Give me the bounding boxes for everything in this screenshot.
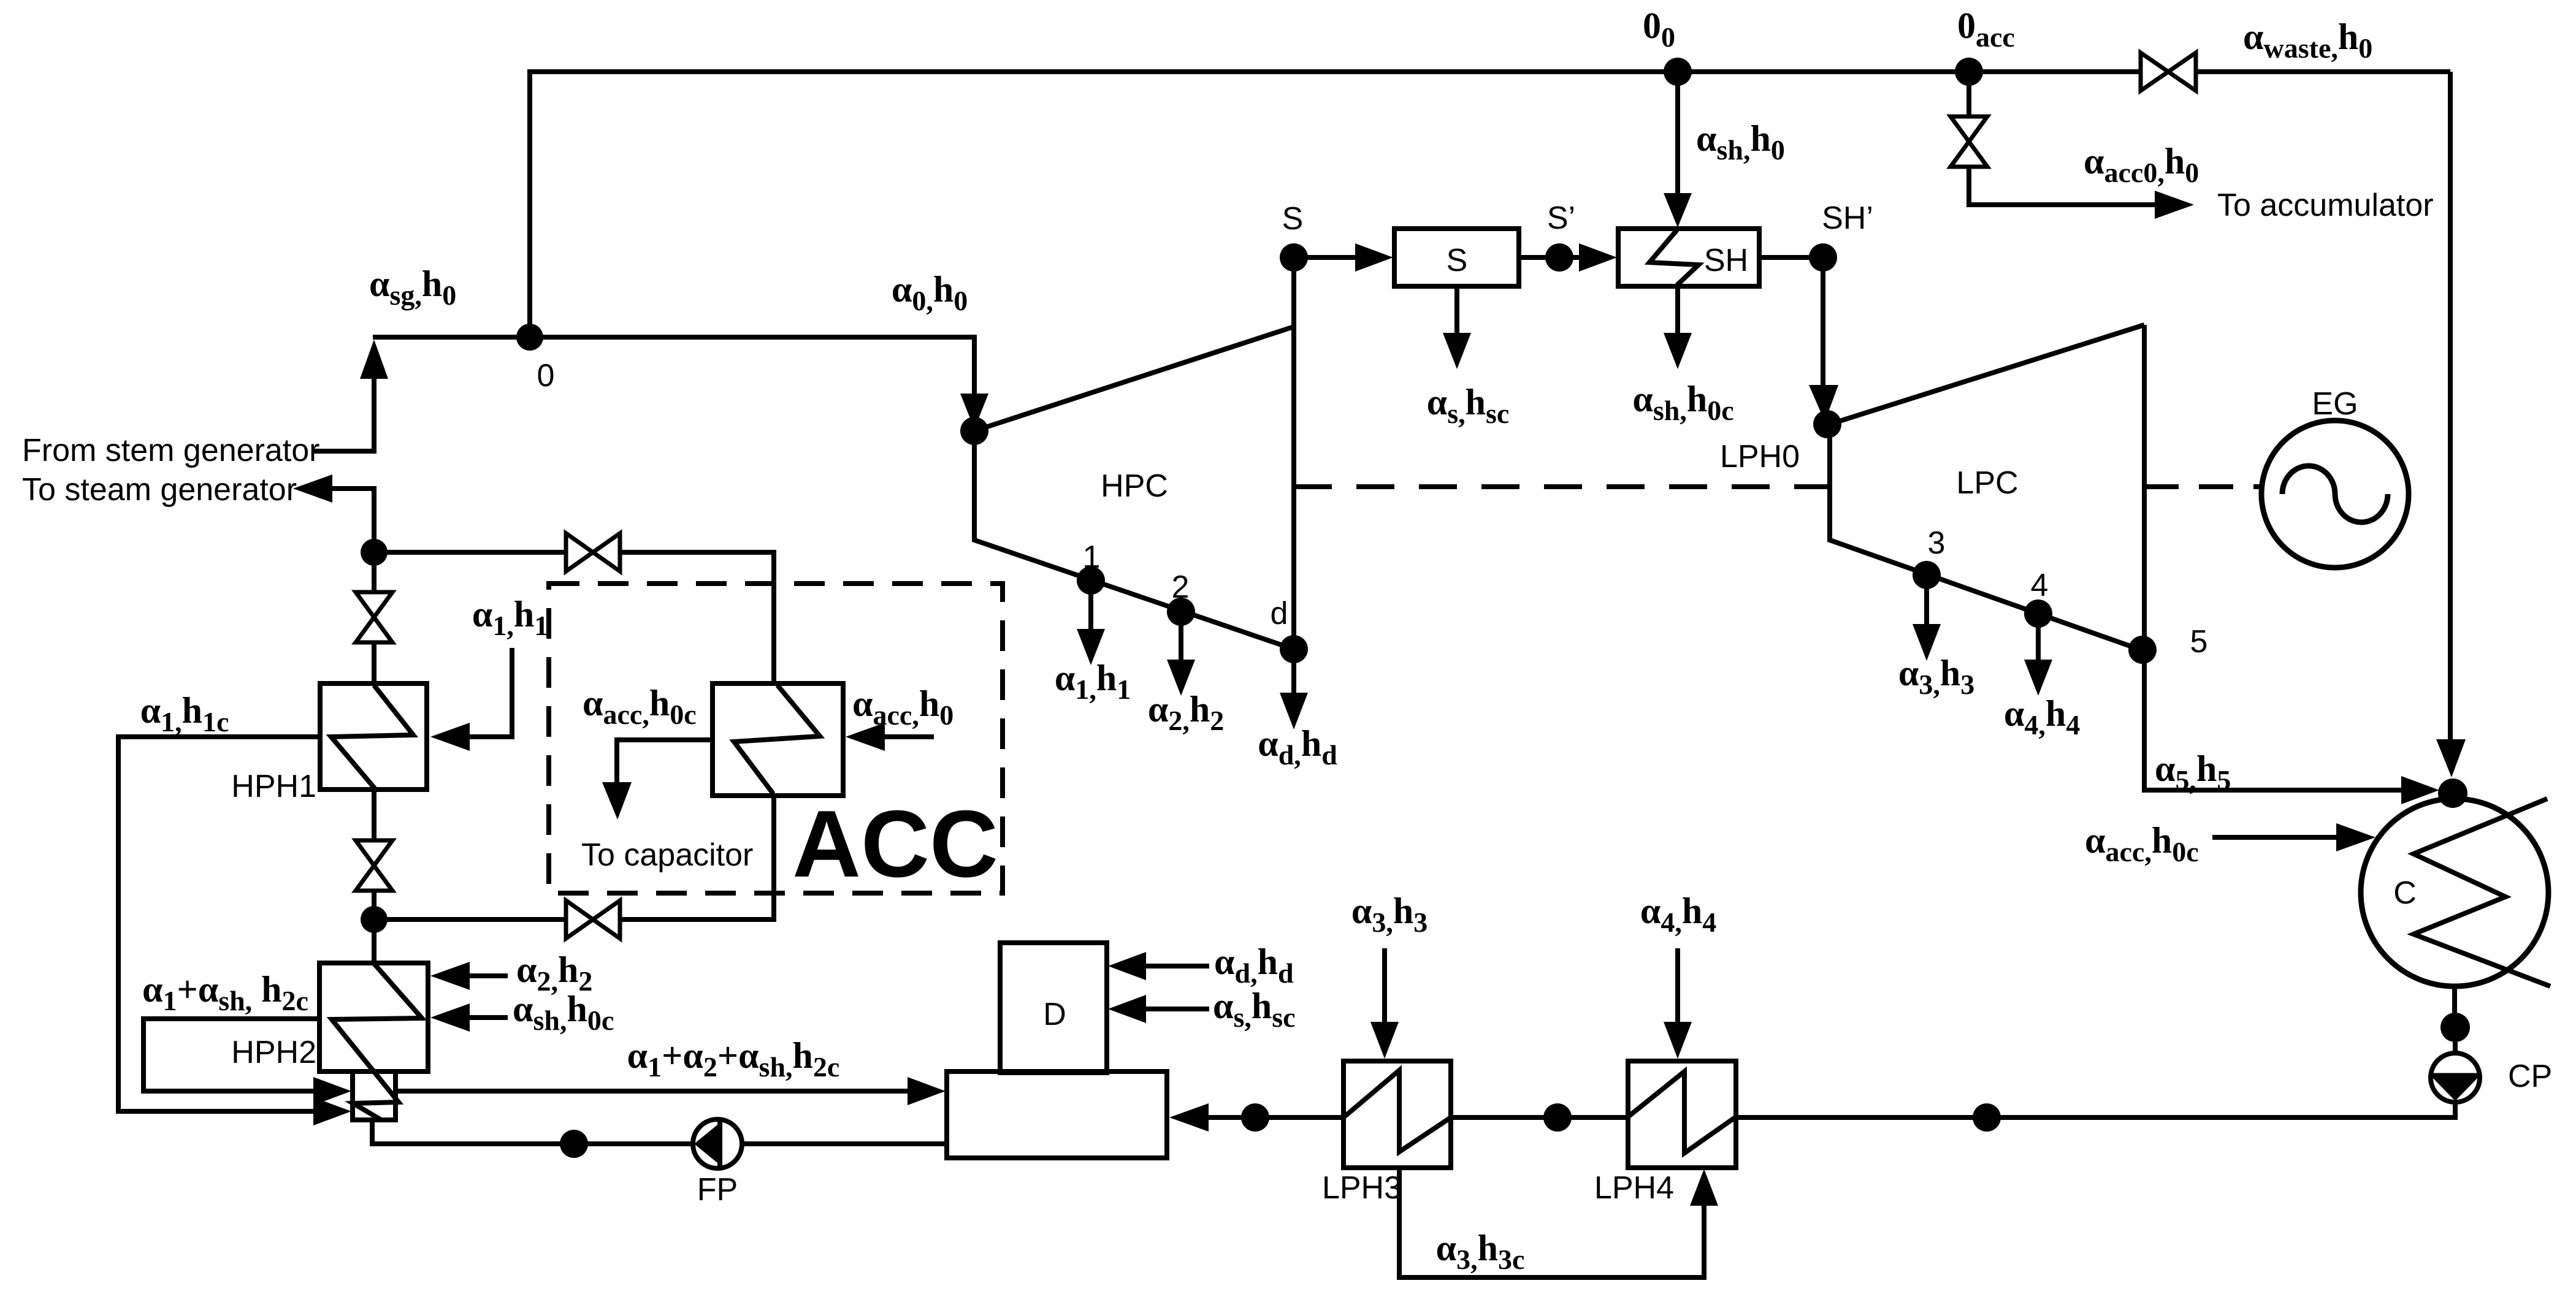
wire alpha-s,hsc into deaerator bbox=[1145, 1007, 1209, 1011]
svg-text:3: 3 bbox=[1928, 525, 1946, 561]
node on condensate line bbox=[1973, 1103, 2001, 1132]
wire alpha-1,h1c drain from HPH1 to small box bbox=[118, 737, 320, 1111]
generator EG bbox=[2261, 421, 2409, 568]
node 2 extraction bbox=[1167, 598, 1195, 626]
wire alpha-4,h4 into LPH4 bbox=[1675, 948, 1680, 1023]
wire alpha-1,h1 extraction into HPH1 bbox=[468, 648, 512, 737]
svg-text:SH’: SH’ bbox=[1822, 200, 1873, 236]
wire alpha-0,h0 into HPC bbox=[960, 394, 988, 429]
wire left main pipe node to HPH1 bbox=[372, 552, 376, 596]
wire alpha-acc,h0c out to capacitor bbox=[617, 740, 713, 785]
wire alpha-2,h2 into HPH2 bbox=[468, 973, 508, 978]
wire feedwater line from FP into drain cooler bbox=[372, 1120, 947, 1144]
node 0-acc on header bbox=[1955, 58, 1983, 86]
svg-text:To capacitor: To capacitor bbox=[581, 837, 753, 873]
condenser C bbox=[2361, 799, 2548, 986]
turbine HPC bbox=[974, 327, 1294, 649]
svg-text:S: S bbox=[1282, 201, 1304, 237]
arrow up into alpha-sg line bbox=[360, 340, 388, 379]
dashed shaft HPC to LPC bbox=[1294, 484, 1829, 489]
wire alpha-d,hd into deaerator bbox=[1145, 964, 1209, 969]
wire to accumulator bbox=[1969, 165, 2157, 205]
wire SH' down to LPC inlet bbox=[1821, 257, 1825, 387]
wire steam column S to d bbox=[1291, 257, 1296, 649]
arrow S' into SH bbox=[1559, 255, 1582, 260]
wire alpha1+alpha2+alphash,h2c drain to deaerator bbox=[396, 1089, 911, 1094]
dashed shaft LPC to EG bbox=[2144, 484, 2261, 489]
svg-text:FP: FP bbox=[697, 1172, 738, 1208]
wire alpha-sh,h0c into HPH2 bbox=[468, 1015, 508, 1020]
wire SH drain alpha-sh,h0c bbox=[1675, 286, 1680, 334]
node SH' bbox=[1809, 243, 1837, 272]
wire HPH drain valve line upper bbox=[374, 550, 567, 555]
superheater SH box bbox=[1618, 229, 1759, 286]
wire alpha-3,h3 into LPH3 bbox=[1382, 948, 1387, 1023]
wire from steam generator inlet bbox=[313, 376, 374, 451]
svg-text:d: d bbox=[1271, 596, 1288, 631]
node S' bbox=[1545, 243, 1573, 272]
arrow left to steam generator bbox=[293, 474, 332, 503]
pump CP bbox=[2431, 1053, 2480, 1102]
valve vertical on accumulator branch bbox=[1951, 116, 1987, 142]
wire LPH3 drain loop alpha-3,h3c to LPH4 bbox=[1399, 1168, 1704, 1277]
wire alpha-3,h3 extraction bbox=[1924, 575, 1929, 625]
node drain junction bbox=[361, 539, 388, 566]
svg-text:S’: S’ bbox=[1547, 200, 1575, 236]
svg-text:From stem generator: From stem generator bbox=[22, 433, 320, 468]
svg-text:LPC: LPC bbox=[1956, 465, 2018, 501]
node condensate bbox=[2440, 1013, 2470, 1042]
heat exchanger inside ACC bbox=[713, 683, 843, 796]
svg-text:D: D bbox=[1043, 997, 1066, 1032]
deaerator D lower box bbox=[947, 1071, 1167, 1158]
wire alpha-4,h4 extraction bbox=[2036, 614, 2041, 661]
wire S to separator box bbox=[1294, 255, 1359, 260]
svg-text:HPC: HPC bbox=[1101, 468, 1168, 504]
svg-text:1: 1 bbox=[1083, 539, 1101, 575]
drain cooler small box under HPH2 bbox=[353, 1071, 396, 1120]
svg-text:2: 2 bbox=[1172, 569, 1190, 605]
svg-text:0: 0 bbox=[537, 358, 555, 394]
valve vertical above HPH1 bbox=[356, 592, 392, 617]
svg-text:LPH0: LPH0 bbox=[1720, 439, 1800, 474]
svg-text:EG: EG bbox=[2312, 386, 2358, 422]
svg-text:LPH3: LPH3 bbox=[1322, 1170, 1402, 1206]
wire exhaust alpha-5,h5 to condenser bbox=[2144, 650, 2404, 790]
wire alpha-acc,h0 into ACC exchanger bbox=[884, 734, 934, 739]
deaerator D upper box bbox=[1000, 943, 1107, 1073]
wire lower ACC valve line bbox=[374, 917, 567, 922]
svg-text:HPH2: HPH2 bbox=[231, 1035, 316, 1070]
valve on waste line (horizontal bowtie) bbox=[2141, 53, 2168, 91]
node S bbox=[1280, 243, 1308, 272]
wire SH to SH' bbox=[1759, 255, 1810, 260]
wire condensate main line bbox=[1736, 1101, 2455, 1117]
wire alpha-sg main steam line bbox=[373, 337, 974, 395]
node 5 turbine exhaust bbox=[2128, 636, 2157, 664]
node d extraction bbox=[1280, 635, 1308, 663]
node LPC inlet bbox=[1813, 410, 1841, 438]
node 4 extraction bbox=[2024, 599, 2052, 628]
svg-text:SH: SH bbox=[1704, 243, 1748, 278]
wire condenser to CP bbox=[2452, 986, 2457, 1013]
wire alpha-d,hd extraction bbox=[1291, 649, 1296, 694]
wire S box to S' bbox=[1519, 255, 1546, 260]
wire condensate into deaerator bbox=[1207, 1115, 1343, 1120]
node 1 extraction bbox=[1077, 566, 1105, 595]
wire 0acc branch down bbox=[1966, 72, 1971, 118]
valve on upper ACC line bbox=[566, 533, 593, 571]
svg-text:ACC: ACC bbox=[792, 791, 998, 897]
svg-text:5: 5 bbox=[2190, 624, 2208, 660]
svg-text:C: C bbox=[2393, 875, 2417, 911]
svg-text:To steam generator: To steam generator bbox=[22, 472, 297, 508]
valve vertical below HPH1 bbox=[356, 840, 392, 866]
wire to steam generator outlet bbox=[331, 489, 374, 552]
node 0 bbox=[516, 324, 543, 351]
node HPC inlet bbox=[960, 417, 988, 445]
wire alpha-acc,h0c into condenser bbox=[2212, 835, 2337, 840]
svg-text:HPH1: HPH1 bbox=[231, 769, 316, 804]
heater LPH4 bbox=[1628, 1061, 1736, 1168]
wire top header line bbox=[530, 72, 2450, 337]
node before deaerator bbox=[1241, 1103, 1269, 1132]
valve on lower ACC line bbox=[566, 900, 593, 938]
svg-text:S: S bbox=[1447, 243, 1468, 278]
svg-text:LPH4: LPH4 bbox=[1594, 1170, 1674, 1206]
turbine LPC bbox=[1830, 325, 2144, 650]
wire alpha1+alphash,h2c loop bbox=[143, 1019, 319, 1091]
accumulator block ACC dashed box bbox=[549, 584, 1003, 893]
heater HPH2 bbox=[319, 963, 428, 1071]
node between LPH3 and LPH4 bbox=[1543, 1103, 1572, 1132]
separator S box bbox=[1394, 229, 1519, 286]
node 3 extraction bbox=[1913, 561, 1941, 589]
node lower drain junction bbox=[361, 906, 388, 933]
wire separator drain bbox=[1454, 286, 1459, 334]
node condenser inlet bbox=[2438, 778, 2467, 808]
node on feed line bbox=[560, 1130, 588, 1158]
svg-text:4: 4 bbox=[2031, 568, 2049, 603]
node 0-0 on header bbox=[1664, 58, 1692, 86]
pump FP bbox=[693, 1119, 742, 1168]
wire between LPH4 and LPH3 bbox=[1451, 1115, 1628, 1120]
svg-text:To accumulator: To accumulator bbox=[2217, 188, 2434, 223]
wire alpha-1,h1 extraction bbox=[1088, 580, 1093, 630]
heater LPH3 bbox=[1343, 1061, 1451, 1168]
wire HPH1 to HPH2 bbox=[372, 790, 376, 843]
wire alpha-sh,h0 drop to SH bbox=[1675, 72, 1680, 195]
wire right drop to condenser bbox=[2448, 72, 2453, 742]
heater HPH1 bbox=[320, 683, 427, 790]
svg-text:CP: CP bbox=[2508, 1059, 2552, 1094]
wire alpha-2,h2 extraction bbox=[1179, 612, 1183, 661]
